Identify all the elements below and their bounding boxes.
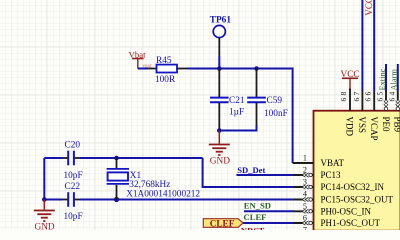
svg-text:Extinc: Extinc xyxy=(378,68,387,90)
svg-text:TP61: TP61 xyxy=(210,16,232,26)
svg-text:PH1-OSC_OUT: PH1-OSC_OUT xyxy=(321,218,381,228)
crystal X1 xyxy=(107,158,201,200)
pin R45.2 xyxy=(177,68,187,70)
junction X1 bottom xyxy=(114,197,119,202)
capacitor C22 xyxy=(63,182,83,222)
svg-text:66: 66 xyxy=(364,90,373,102)
svg-text:EN_SD: EN_SD xyxy=(244,201,271,211)
pin 67 VSS + wire to top xyxy=(352,0,367,133)
svg-text:VCAP: VCAP xyxy=(369,117,379,141)
testpoint TP61 xyxy=(210,16,232,69)
junction GND1 xyxy=(217,128,222,133)
svg-text:VDD: VDD xyxy=(345,117,355,137)
svg-text:10pF: 10pF xyxy=(64,171,83,181)
wire EN_SD to pin 5 xyxy=(244,210,294,212)
wire C22 to IC pin 4 xyxy=(80,199,294,201)
wire C20 row xyxy=(44,157,62,159)
pin 3 PC14-OSC32_IN xyxy=(294,178,385,193)
wire left rail xyxy=(43,158,45,200)
wire main bus to pin 1 corner xyxy=(187,69,293,164)
pin 4 PC15-OSC32_OUT xyxy=(294,190,394,205)
ground GND2 xyxy=(34,200,55,222)
junction GND2 xyxy=(42,197,47,202)
svg-text:Alarm: Alarm xyxy=(390,69,399,91)
pin 7 NRST (clipped) xyxy=(303,226,307,235)
svg-text:PH0-OSC_IN: PH0-OSC_IN xyxy=(321,206,372,216)
svg-text:PC14-OSC32_IN: PC14-OSC32_IN xyxy=(321,182,385,192)
pin 66 VCAP + wire to top xyxy=(364,0,379,141)
wire CLEF to pin 6 xyxy=(243,222,294,224)
svg-text:VCC: VCC xyxy=(364,0,374,16)
svg-text:X1A000141000212: X1A000141000212 xyxy=(126,190,200,200)
power port Vbat xyxy=(132,59,144,69)
wire SD_Det to pin 2 xyxy=(237,174,295,176)
svg-text:PB9: PB9 xyxy=(393,117,400,133)
svg-text:SD_Det: SD_Det xyxy=(237,165,265,175)
svg-text:C59: C59 xyxy=(267,96,283,106)
svg-text:1: 1 xyxy=(303,154,307,163)
svg-text:R45: R45 xyxy=(156,56,172,66)
svg-text:GND: GND xyxy=(35,223,55,230)
svg-text:68: 68 xyxy=(339,90,348,102)
svg-text:VSS: VSS xyxy=(357,117,367,134)
svg-text:C21: C21 xyxy=(229,96,245,106)
capacitor C59 xyxy=(247,69,288,126)
svg-text:Vbat: Vbat xyxy=(129,49,147,59)
svg-text:PE0: PE0 xyxy=(381,117,391,133)
pin 2 PC13 xyxy=(294,166,341,181)
svg-text:C20: C20 xyxy=(65,141,81,151)
capacitor C21 xyxy=(210,69,245,131)
svg-text:7: 7 xyxy=(303,226,307,230)
port CLEF xyxy=(203,218,243,228)
svg-text:1µF: 1µF xyxy=(229,108,244,118)
wire Vbat to R45 xyxy=(138,68,148,70)
wire C59 bottom to GND junction xyxy=(219,125,256,131)
svg-text:100nF: 100nF xyxy=(264,109,288,119)
svg-text:10pF: 10pF xyxy=(64,212,83,222)
svg-text:PC13: PC13 xyxy=(321,170,342,180)
junction X1 top xyxy=(114,156,119,161)
resistor R45 xyxy=(157,65,178,73)
IC U1 body (MCU) xyxy=(314,111,400,231)
pin 5 PH0-OSC_IN xyxy=(294,202,372,217)
ground GND1 xyxy=(209,131,230,156)
svg-text:100R: 100R xyxy=(155,75,176,85)
svg-text:CLEF: CLEF xyxy=(244,212,267,222)
svg-text:CLEF: CLEF xyxy=(210,218,235,228)
wire C20 to crystal top xyxy=(80,157,203,159)
pin R45.1 xyxy=(148,68,157,70)
capacitor C20 xyxy=(63,141,83,181)
svg-text:PC15-OSC32_OUT: PC15-OSC32_OUT xyxy=(321,195,394,205)
svg-text:NRST: NRST xyxy=(241,226,265,230)
pin 6 PH1-OSC_OUT xyxy=(294,214,381,229)
power port VCC (pin 68) xyxy=(341,70,360,89)
svg-text:GND: GND xyxy=(210,157,230,167)
pin 65 PE0 + wire + net label Extinc xyxy=(376,64,391,132)
pin 68 VDD xyxy=(339,89,355,137)
wire C22 row xyxy=(44,199,62,201)
pin 64 PB9 + wire + net label Alarm xyxy=(387,64,400,133)
svg-text:C22: C22 xyxy=(65,182,81,192)
svg-text:VBAT: VBAT xyxy=(321,158,345,168)
wire crystal top to IC pin 3 xyxy=(203,158,294,187)
junction TP61/C21 xyxy=(217,66,222,71)
junction C59 xyxy=(254,66,259,71)
pin 1 VBAT xyxy=(293,154,345,169)
svg-text:67: 67 xyxy=(352,90,361,102)
